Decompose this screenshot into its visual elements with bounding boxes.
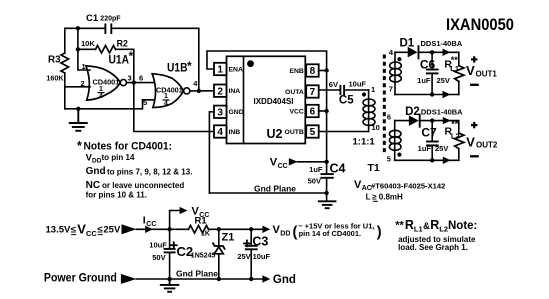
svg-text:OUTB: OUTB [285, 129, 304, 136]
svg-text:1: 1 [164, 93, 168, 100]
wire pin6 VCC stub [319, 110, 327, 112]
ground symbol oscillator [70, 109, 87, 131]
svg-text:7: 7 [310, 87, 316, 98]
U2 internal divider line [243, 56, 245, 143]
svg-text:VCC: VCC [289, 108, 303, 115]
small arrowhead ICC [145, 226, 153, 233]
svg-text:L1: L1 [414, 224, 423, 233]
svg-text:8: 8 [310, 66, 316, 77]
wire OUTB pin5 to transformer primary bottom [319, 131, 369, 133]
svg-text:T1: T1 [368, 162, 380, 174]
transformer core dashed line [383, 55, 386, 156]
svg-text:L: L [366, 193, 371, 202]
svg-text:C7: C7 [421, 126, 437, 140]
svg-text:10K: 10K [81, 39, 95, 48]
node dot U1A output [132, 80, 136, 84]
svg-text:IXDD404SI: IXDD404SI [253, 97, 293, 106]
svg-text:Gnd: Gnd [86, 166, 106, 177]
svg-text:6: 6 [387, 113, 391, 122]
svg-text:R1: R1 [195, 216, 208, 227]
svg-text:for pins 10 & 11.: for pins 10 & 11. [86, 191, 147, 200]
node dot VCC arrow junction [324, 160, 328, 164]
resistor R2 zigzag [96, 46, 116, 54]
wire C1 right to feedback corner [112, 28, 199, 91]
wire RL1 bottom [458, 81, 460, 94]
Power Ground input arrowhead [121, 274, 136, 284]
node dot C7 top [430, 118, 434, 122]
wire VCC input rail [136, 228, 188, 230]
svg-text:2: 2 [81, 79, 85, 88]
svg-text:CC: CC [86, 229, 97, 238]
svg-text:D2: D2 [405, 106, 420, 118]
pin box 7 OUTA [306, 85, 319, 97]
U1B output bubble [184, 88, 190, 94]
svg-text:OUT1: OUT1 [476, 69, 498, 78]
wire R3 bottom to ground rail [64, 73, 66, 109]
svg-text:4: 4 [164, 101, 168, 108]
svg-text:10uF: 10uF [253, 252, 271, 261]
svg-text:V: V [466, 134, 475, 149]
VCC input arrowhead [122, 224, 137, 234]
svg-text:*: * [129, 49, 134, 63]
resistor RL2 zigzag [455, 133, 464, 149]
svg-text:V: V [466, 63, 475, 78]
svg-text:to pin 14: to pin 14 [102, 153, 135, 162]
svg-text:L2: L2 [439, 224, 448, 233]
U1A output bubble [120, 80, 126, 86]
capacitor C5 plates [340, 86, 344, 94]
svg-text:1: 1 [217, 65, 223, 76]
wire C4 bottom to gnd plane [326, 178, 328, 201]
svg-text:OUTA: OUTA [285, 89, 304, 96]
svg-text:1uF: 1uF [418, 144, 432, 153]
svg-text:C6: C6 [420, 57, 436, 71]
resistor R1 zigzag [189, 226, 209, 234]
svg-text:R: R [430, 218, 439, 232]
wire R2 right to U1A output [116, 49, 134, 82]
svg-text:to pins 7, 9, 8, 12 & 13.: to pins 7, 9, 8, 12 & 13. [107, 168, 192, 177]
svg-text:13.5V: 13.5V [46, 225, 71, 236]
wire node-X down to U1A pin 1 [78, 28, 90, 70]
op-amp gate U1B NOR CD4001 [152, 74, 183, 108]
pin box 1 ENA [214, 63, 227, 75]
svg-text:4: 4 [99, 93, 103, 100]
svg-text:CD4001: CD4001 [93, 79, 120, 86]
svg-text:DD: DD [280, 230, 290, 237]
arrowhead top VOUT1 [443, 49, 451, 56]
wire VOUT2 top [395, 120, 409, 122]
wire ground rail [136, 278, 262, 280]
svg-text:DDS1-40BA: DDS1-40BA [421, 108, 463, 117]
svg-text:C4: C4 [330, 162, 346, 176]
underline bars for less-equal signs [71, 201, 378, 234]
node dot ground rail [76, 107, 80, 111]
svg-text:Notes for CD4001:: Notes for CD4001: [84, 141, 173, 153]
pin box 5 OUTB [306, 125, 319, 137]
arrowhead bottom VOUT2 [443, 157, 451, 164]
svg-text:NC: NC [86, 180, 100, 191]
svg-text:D1: D1 [400, 38, 415, 50]
svg-text:R3: R3 [48, 55, 61, 66]
wire U1A pin 2 stub [65, 86, 90, 88]
svg-text:CC: CC [278, 163, 288, 170]
svg-text:160K: 160K [46, 74, 64, 83]
capacitor C2 [169, 229, 171, 249]
VCC arrow feed [298, 161, 327, 163]
svg-text:5: 5 [143, 98, 147, 107]
U2 pin-1 marker dot [247, 60, 254, 67]
wire RL2 bottom [458, 149, 460, 161]
plus sign C3 [244, 241, 250, 247]
svg-text:7: 7 [389, 85, 393, 94]
svg-text:CD4001: CD4001 [156, 88, 183, 95]
wire VOUT1 top [395, 51, 408, 53]
T1 secondary 2 winding wire [394, 121, 396, 161]
T1 secondary 2 coil loops [389, 130, 401, 150]
svg-text:C3: C3 [252, 235, 268, 249]
svg-text:Z1: Z1 [222, 232, 235, 244]
wire OUTA pin7 to C5 [319, 89, 340, 91]
ground symbol under C4 [319, 201, 336, 208]
svg-text:ENB: ENB [289, 68, 303, 75]
svg-text:DD: DD [92, 158, 102, 165]
svg-text:Power Ground: Power Ground [44, 273, 117, 285]
svg-text:L1: L1 [450, 64, 459, 73]
svg-text:R: R [405, 218, 414, 232]
plus sign C2 [171, 242, 177, 248]
D2 cathode bar [419, 115, 421, 127]
wire VCC tap up [170, 211, 180, 230]
wire pin8 ENB stub [319, 70, 327, 72]
svg-text:V: V [273, 224, 281, 236]
svg-text:5: 5 [310, 127, 316, 138]
svg-text:OUT2: OUT2 [476, 140, 498, 149]
svg-text:V: V [77, 222, 86, 237]
svg-text:25V: 25V [437, 76, 450, 85]
T1 secondary 2 polarity dot [397, 153, 401, 157]
svg-text:10uF: 10uF [349, 80, 367, 89]
node dot VCC pin rail [324, 109, 328, 113]
wire U1A output to node [127, 82, 134, 84]
svg-text:INA: INA [229, 88, 241, 95]
svg-text:6V: 6V [329, 80, 338, 89]
svg-text:3: 3 [217, 107, 223, 118]
capacitor C4 plates [321, 174, 332, 178]
wire U1B output to U2 INA [190, 90, 214, 92]
svg-text:C1: C1 [86, 13, 99, 24]
svg-text:pin 14 of CD4001.: pin 14 of CD4001. [299, 229, 362, 238]
svg-text:C2: C2 [177, 244, 194, 259]
plus sign VOUT2 [471, 122, 477, 128]
node dot C3 top [249, 227, 253, 231]
svg-text:**: ** [451, 119, 459, 129]
wire D1 to RL1 corner [419, 52, 458, 65]
svg-text:3: 3 [128, 74, 132, 83]
wire node-X top rail left of C1 [65, 28, 105, 53]
svg-text:): ) [377, 225, 382, 241]
wire U1A output down to U2 INB [134, 83, 214, 132]
wire VCC rail vertical [326, 71, 328, 175]
svg-text:#T60403-F4025-X142: #T60403-F4025-X142 [371, 182, 445, 191]
pin box 8 ENB [306, 64, 319, 76]
svg-text:Gnd Plane: Gnd Plane [254, 184, 296, 194]
svg-text:4: 4 [217, 127, 223, 138]
svg-text:*: * [187, 59, 192, 73]
transformer T1 primary winding wire [368, 90, 370, 132]
capacitor C3 [250, 229, 252, 246]
node dot gnd plane [324, 191, 328, 195]
node dot VCC tap [167, 227, 171, 231]
svg-text:DDS1-40BA: DDS1-40BA [421, 39, 463, 48]
svg-text:6: 6 [139, 74, 143, 83]
svg-text:CC: CC [146, 221, 156, 228]
svg-text:1: 1 [99, 86, 103, 93]
svg-text:INB: INB [229, 129, 241, 136]
ground symbol power [161, 279, 179, 292]
wire VOUT1 bottom [395, 94, 459, 96]
Gnd arrowhead [262, 275, 270, 282]
svg-text:25V: 25V [103, 225, 121, 236]
plus sign VOUT1 [471, 56, 477, 62]
svg-text:2: 2 [217, 86, 223, 97]
svg-text:10uF: 10uF [149, 241, 167, 250]
svg-text:*: * [77, 139, 82, 153]
svg-text:220pF: 220pF [100, 16, 121, 23]
VDD arrowhead [262, 226, 270, 233]
svg-text:10: 10 [372, 123, 380, 132]
node dot C2 gnd [167, 277, 171, 281]
wire gnd plane line [209, 192, 326, 194]
svg-text:25V: 25V [237, 252, 250, 261]
T1 primary coil loops [363, 99, 375, 126]
svg-text:L2: L2 [451, 132, 460, 141]
diode D1 [408, 47, 418, 58]
node dot Z1 gnd [217, 277, 221, 281]
svg-text:load. See Graph 1.: load. See Graph 1. [398, 243, 468, 252]
pin box 3 GND [214, 106, 227, 118]
fraction bars U1A U1B [98, 93, 170, 100]
node dot U1B output feedback [197, 89, 201, 93]
wire ENA enable loop to VCC rail [207, 51, 327, 71]
wire D2 to RL2 corner [421, 121, 459, 133]
VCC tap arrowhead [180, 207, 188, 214]
svg-text:1N5245: 1N5245 [191, 253, 216, 260]
svg-text:1: 1 [82, 62, 86, 71]
pin box 6 VCC [306, 105, 319, 117]
svg-text:IXAN0050: IXAN0050 [446, 15, 514, 34]
capacitor C6 [431, 52, 433, 69]
pin box 2 INA [214, 85, 227, 97]
node dot Z1 top [217, 227, 221, 231]
D1 cathode bar [418, 46, 420, 58]
node dot R2 left [76, 47, 80, 51]
T1 secondary 1 polarity dot [397, 57, 401, 61]
svg-text:1uF: 1uF [309, 165, 323, 174]
svg-text:V: V [270, 157, 278, 169]
minus sign VOUT1 [471, 84, 478, 86]
svg-text:or leave unconnected: or leave unconnected [102, 181, 184, 190]
zener Z1 [218, 229, 220, 246]
svg-text:25V: 25V [435, 144, 448, 153]
wire VOUT2 bottom [395, 159, 459, 161]
VCC arrowhead [289, 158, 298, 165]
pin box 4 INB [214, 125, 227, 137]
svg-text:50V: 50V [308, 177, 321, 186]
node dot ENB VCC rail [324, 68, 328, 72]
svg-text:6: 6 [310, 107, 316, 118]
arrowhead top VOUT2 [443, 117, 451, 124]
svg-text:1uF: 1uF [417, 76, 431, 85]
wire pin3 GND to gnd plane [209, 112, 214, 193]
svg-text:1:1:1: 1:1:1 [353, 137, 376, 148]
svg-text:Note:: Note: [448, 220, 477, 232]
svg-text:1K: 1K [201, 230, 210, 237]
svg-text:(: ( [293, 225, 298, 241]
IC U2 IXDD404SI body [227, 56, 306, 143]
T1 primary polarity dot [362, 92, 366, 96]
resistor R3 zigzag [61, 53, 69, 73]
svg-text:≥: ≥ [372, 192, 377, 201]
diode D2 [409, 115, 419, 126]
svg-text:0.8mH: 0.8mH [379, 193, 403, 202]
wire U1A output to U1B pin 6 [134, 82, 155, 84]
svg-text:**: ** [451, 55, 459, 65]
svg-text:C5: C5 [339, 95, 354, 107]
node dot C7 bottom [430, 158, 434, 162]
op-amp gate U1A NOR CD4001 [86, 66, 120, 100]
svg-text:U1A: U1A [109, 53, 130, 67]
resistor RL1 zigzag [455, 66, 464, 82]
wire ground rail under gates [65, 100, 156, 109]
capacitor C7 [431, 121, 433, 142]
svg-text:5: 5 [387, 155, 391, 164]
wire R1 to VDD arrow [209, 228, 263, 230]
svg-text:≤: ≤ [97, 225, 102, 236]
svg-text:U2: U2 [267, 127, 283, 141]
svg-text:50V: 50V [152, 253, 165, 262]
node dot C3 gnd [249, 277, 253, 281]
svg-text:R2: R2 [117, 38, 128, 48]
svg-text:U1B: U1B [167, 60, 188, 74]
capacitor C1 plates [105, 24, 111, 33]
node junction dot C1/R2/pin1 [76, 26, 80, 30]
svg-text:1: 1 [371, 85, 375, 94]
arrowhead bottom VOUT1 [443, 91, 451, 98]
svg-text:**: ** [395, 220, 404, 232]
T1 secondary 1 winding wire [394, 52, 396, 94]
wire R2 left stub [78, 48, 96, 50]
svg-text:ENA: ENA [229, 66, 243, 73]
svg-text:GND: GND [229, 109, 244, 116]
svg-text:≤: ≤ [71, 225, 76, 236]
svg-text:Gnd Plane: Gnd Plane [176, 269, 218, 279]
minus sign VOUT2 [471, 155, 478, 157]
svg-text:Gnd: Gnd [273, 274, 296, 286]
svg-text:&: & [423, 221, 430, 232]
T1 secondary 1 coil loops [390, 62, 402, 82]
wire C5 to transformer primary top [345, 89, 369, 91]
node dot C6 bottom [430, 92, 434, 96]
node dot C6 top [430, 50, 434, 54]
